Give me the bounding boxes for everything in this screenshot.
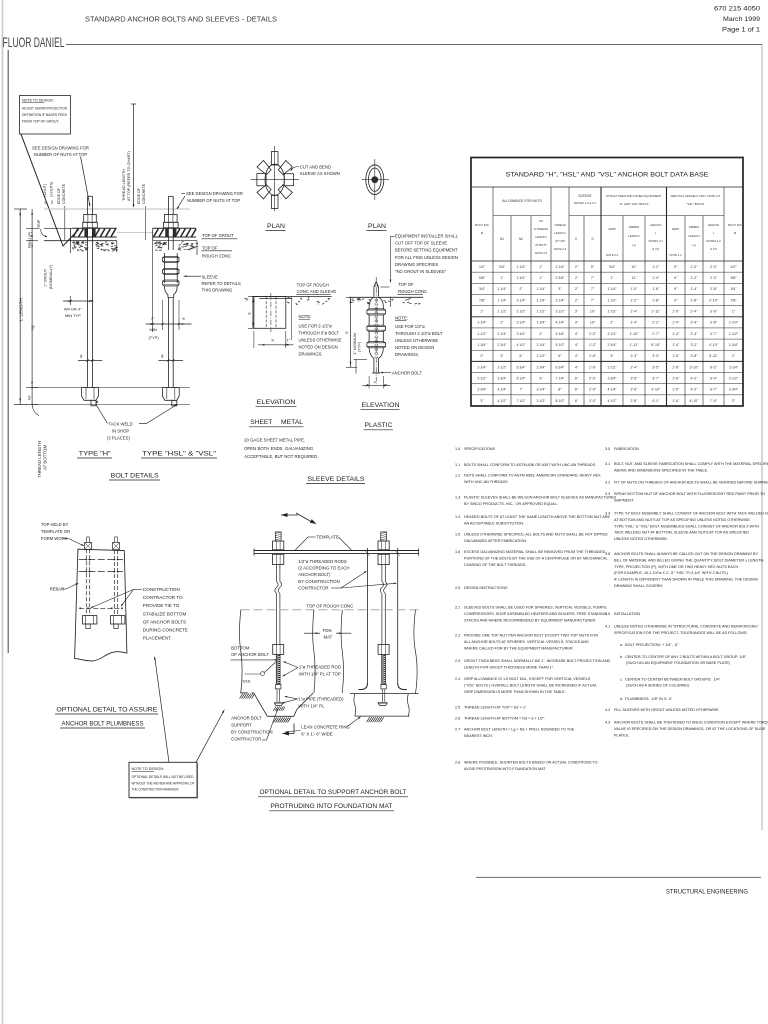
- svg-text:1 3/4": 1 3/4": [536, 321, 546, 325]
- svg-text:1.2: 1.2: [455, 474, 460, 478]
- svg-text:1'-6": 1'-6": [672, 399, 680, 403]
- svg-text:DEFINITION IF BASES FEED: DEFINITION IF BASES FEED: [22, 113, 68, 117]
- svg-text:5": 5": [591, 265, 595, 269]
- svg-text:3'-3": 3'-3": [652, 354, 660, 358]
- svg-text:PLACEMENT.: PLACEMENT.: [143, 636, 172, 641]
- svg-text:3 3/4": 3 3/4": [607, 376, 617, 380]
- svg-text:3": 3": [539, 376, 543, 380]
- top of rough conc label plastic: [381, 286, 390, 288]
- svg-text:ROUGH CONC: ROUGH CONC: [202, 253, 231, 258]
- svg-text:STACKS AND WHERE RECOMMENDED B: STACKS AND WHERE RECOMMENDED BY EQUIPMEN…: [464, 618, 596, 622]
- svg-text:UNLESS OTHERWISE SPECIFIED, AL: UNLESS OTHERWISE SPECIFIED, ALL BOLTS AN…: [464, 533, 608, 537]
- svg-text:GROUT THICKNESS SHALL NORMALLY: GROUT THICKNESS SHALL NORMALLY BE 1". IN…: [464, 659, 611, 663]
- svg-text:2": 2": [575, 276, 579, 280]
- leader to right detail: [196, 711, 224, 763]
- svg-text:3": 3": [575, 310, 579, 314]
- threaded rods with hooks: [367, 548, 369, 683]
- svg-text:TYPE "HSL" & "VSL": TYPE "HSL" & "VSL": [142, 451, 216, 458]
- svg-text:LENGTH: LENGTH: [554, 231, 565, 235]
- bolt B bottom clamp: [111, 616, 125, 624]
- svg-text:Lg: Lg: [30, 326, 35, 330]
- svg-text:ANCHOR BOLT: ANCHOR BOLT: [392, 370, 422, 375]
- svg-text:SLEEVE: SLEEVE: [202, 275, 219, 280]
- template lines in pier: [79, 559, 123, 561]
- svg-text:2": 2": [732, 354, 736, 358]
- svg-text:2 1/4": 2 1/4": [516, 298, 526, 302]
- svg-text:GRIP: GRIP: [37, 219, 41, 229]
- svg-text:1.1: 1.1: [455, 463, 460, 467]
- svg-text:1 1/4": 1 1/4": [536, 298, 546, 302]
- svg-text:3 1/2": 3 1/2": [555, 310, 565, 314]
- svg-text:N1: N1: [44, 200, 48, 204]
- svg-text:2'-3": 2'-3": [631, 354, 639, 358]
- svg-text:1 1/2": 1 1/2": [607, 298, 617, 302]
- svg-text:1": 1": [539, 265, 543, 269]
- svg-text:NOTES 2.2: NOTES 2.2: [706, 239, 721, 243]
- svg-text:WITH 1/4" PL AT TOP: WITH 1/4" PL AT TOP: [299, 672, 341, 677]
- svg-text:1'-0": 1'-0": [672, 310, 680, 314]
- svg-text:VERTICAL VESSELS ONLY NOTE 2.6: VERTICAL VESSELS ONLY NOTE 2.6: [670, 194, 720, 198]
- svg-text:N3: N3: [539, 219, 543, 223]
- bolt 2 shaft lower: [167, 298, 169, 388]
- svg-text:STRUCTURES AND OTHER EQUIPMENT: STRUCTURES AND OTHER EQUIPMENT: [606, 194, 662, 198]
- hatch under right bolt: [367, 717, 370, 722]
- svg-text:1/2": 1/2": [479, 265, 486, 269]
- svg-text:AT BOTTOM: AT BOTTOM: [43, 445, 48, 470]
- svg-text:1-1/2": 1-1/2": [729, 332, 739, 336]
- svg-text:1.5: 1.5: [455, 533, 460, 537]
- sheet metal K dim: [258, 344, 294, 346]
- right mat bottom and lean concrete ring: [350, 693, 419, 695]
- svg-text:'L' LENGTH: 'L' LENGTH: [19, 298, 24, 322]
- svg-text:NUMBER OF NUTS AT TOP: NUMBER OF NUTS AT TOP: [187, 198, 240, 203]
- svg-text:1-3/4": 1-3/4": [729, 343, 739, 347]
- svg-text:5/8": 5/8": [479, 276, 486, 280]
- svg-text:3 1/4": 3 1/4": [555, 298, 565, 302]
- svg-text:5'-11": 5'-11": [709, 354, 718, 358]
- svg-text:ø: ø: [481, 231, 483, 235]
- svg-text:ANCHOR BOLT: ANCHOR BOLT: [231, 716, 262, 721]
- svg-text:2": 2": [480, 354, 484, 358]
- svg-text:DESIGN INSTRUCTIONS: DESIGN INSTRUCTIONS: [464, 586, 508, 590]
- svg-text:3'-7": 3'-7": [652, 376, 660, 380]
- plastic elevation: [349, 296, 423, 298]
- svg-text:10": 10": [590, 310, 596, 314]
- svg-text:7": 7": [591, 287, 595, 291]
- anchor bolt top stud and nuts at x=170.8: [167, 196, 169, 214]
- svg-text:K: K: [183, 316, 186, 321]
- svg-text:ANCHOR BOLT LENGTH = Lg + N3 +: ANCHOR BOLT LENGTH = Lg + N3 + PROJ. ROU…: [464, 728, 575, 732]
- svg-text:W4 OR 4": W4 OR 4": [64, 307, 82, 312]
- svg-text:CHASING OF THE BOLT THREADS.: CHASING OF THE BOLT THREADS.: [464, 563, 526, 567]
- svg-text:OF ANCHOR BOLT: OF ANCHOR BOLT: [231, 652, 269, 657]
- svg-text:d: d: [161, 354, 164, 359]
- svg-text:(3 PLACES): (3 PLACES): [107, 436, 130, 441]
- svg-text:2 3/4": 2 3/4": [536, 365, 546, 369]
- svg-text:ELEVATION: ELEVATION: [362, 402, 400, 409]
- svg-text:1.4: 1.4: [455, 515, 460, 519]
- svg-text:FIT OF NUTS ON THREADS OF ANCH: FIT OF NUTS ON THREADS OF ANCHOR BOLTS S…: [614, 481, 768, 485]
- svg-text:3/4": 3/4": [479, 287, 486, 291]
- bolt washer wedges in grout band 2: [165, 229, 168, 237]
- svg-text:1'-2": 1'-2": [691, 276, 699, 280]
- svg-text:"NO GROUT IN SLEEVES": "NO GROUT IN SLEEVES": [395, 269, 447, 274]
- svg-text:BILL OF MATERIAL AND BILLED GI: BILL OF MATERIAL AND BILLED GIVING THE Q…: [614, 558, 764, 562]
- svg-text:2'-4": 2'-4": [691, 332, 699, 336]
- svg-text:GRIP: GRIP: [672, 227, 679, 231]
- svg-text:"VSL" BOLTS: "VSL" BOLTS: [686, 202, 704, 206]
- svg-text:(TYP): (TYP): [357, 341, 362, 352]
- svg-text:2'-4": 2'-4": [631, 365, 639, 369]
- svg-text:OF ANCHOR BOLTS: OF ANCHOR BOLTS: [143, 619, 186, 624]
- svg-text:FOR ALL FINS UNLESS DESIGN: FOR ALL FINS UNLESS DESIGN: [395, 255, 458, 260]
- sheet metal elevation: [252, 296, 332, 298]
- svg-text:1'-0": 1'-0": [691, 265, 699, 269]
- svg-text:LENGTH: LENGTH: [650, 223, 661, 227]
- svg-text:7": 7": [591, 298, 595, 302]
- svg-text:7": 7": [519, 388, 523, 392]
- leader to left detail: [155, 658, 169, 763]
- svg-text:7 1/2": 7 1/2": [516, 399, 526, 403]
- svg-text:1'-6": 1'-6": [589, 354, 597, 358]
- svg-text:4 1/2": 4 1/2": [607, 399, 617, 403]
- svg-text:1'-6": 1'-6": [672, 354, 680, 358]
- section arrow bottom: [283, 732, 290, 736]
- svg-text:AT TOP (REFER TO CHART): AT TOP (REFER TO CHART): [127, 150, 131, 201]
- svg-text:2-1/2": 2-1/2": [729, 376, 739, 380]
- plastic K dim: [362, 384, 390, 386]
- svg-text:FLUOR DANIEL: FLUOR DANIEL: [3, 34, 65, 50]
- svg-text:1/2"ø THREADED RODS: 1/2"ø THREADED RODS: [298, 559, 347, 564]
- svg-text:EXCESS GALVANIZING MATERIAL SH: EXCESS GALVANIZING MATERIAL SHALL BE REM…: [464, 550, 606, 554]
- svg-text:4'-2": 4'-2": [691, 388, 699, 392]
- svg-text:3/16: 3/16: [242, 679, 251, 684]
- svg-text:NOTE 2.3: NOTE 2.3: [554, 247, 567, 251]
- data table: STANDARD H HSL VSL ANCHOR BOLT DATA BASE: [471, 158, 743, 407]
- svg-text:2'-0": 2'-0": [589, 376, 597, 380]
- svg-text:1.0: 1.0: [455, 447, 460, 451]
- svg-text:FORM WORK: FORM WORK: [41, 536, 68, 541]
- svg-text:VALUE IS SPECIFIED ON THE DESI: VALUE IS SPECIFIED ON THE DESIGN DRAWING…: [614, 727, 766, 731]
- svg-text:2": 2": [500, 321, 504, 325]
- svg-text:ANCHOR BOLTS SHALL BE TIGHTENE: ANCHOR BOLTS SHALL BE TIGHTENED TO SNUG …: [614, 721, 768, 725]
- svg-text:670 215 4050: 670 215 4050: [714, 6, 760, 13]
- pit outline left: [240, 692, 254, 694]
- svg-text:1'-6": 1'-6": [672, 376, 680, 380]
- svg-text:2 3/4": 2 3/4": [497, 343, 507, 347]
- page left scan edge: [2, 0, 4, 1024]
- svg-text:2'-0": 2'-0": [589, 399, 597, 403]
- svg-text:HEADED BOLTS OF AT LEAST THE S: HEADED BOLTS OF AT LEAST THE SAME LENGTH…: [464, 515, 610, 519]
- svg-text:2'-6": 2'-6": [631, 388, 639, 392]
- svg-text:& 3.5: & 3.5: [652, 247, 659, 251]
- svg-text:2 1/4": 2 1/4": [536, 343, 546, 347]
- svg-text:N2: N2: [519, 237, 523, 241]
- svg-text:2'-2": 2'-2": [652, 321, 660, 325]
- svg-text:3": 3": [575, 321, 579, 325]
- svg-text:2.3: 2.3: [455, 659, 460, 663]
- svg-text:6": 6": [575, 399, 579, 403]
- svg-text:THIS DRAWING: THIS DRAWING: [202, 288, 233, 293]
- svg-text:March 1999: March 1999: [723, 16, 760, 23]
- svg-text:REBAR: REBAR: [50, 587, 64, 592]
- svg-text:LENGTH FOR GROUT THICKNESS MOR: LENGTH FOR GROUT THICKNESS MORE THAN 1".: [464, 665, 554, 669]
- svg-text:THREAD LENGTH: THREAD LENGTH: [122, 169, 126, 201]
- right border line: [761, 44, 763, 830]
- svg-text:GRIP ALLOWANCE IS 1.5 BOLT DIA: GRIP ALLOWANCE IS 1.5 BOLT DIA., EXCEPT …: [464, 677, 591, 681]
- svg-text:4.2: 4.2: [605, 708, 610, 712]
- svg-text:1'-4": 1'-4": [672, 321, 680, 325]
- svg-text:4.1: 4.1: [605, 625, 610, 629]
- svg-text:USE FOR 1/2"ø: USE FOR 1/2"ø: [395, 324, 425, 329]
- hatch below pit bottom: [274, 718, 277, 723]
- bolt bottom flanges: [274, 702, 283, 704]
- svg-text:ANCHOR BOLTS SHALL ALWAYS BE C: ANCHOR BOLTS SHALL ALWAYS BE CALLED OUT …: [614, 552, 759, 556]
- svg-text:4'-1": 4'-1": [652, 399, 660, 403]
- svg-text:1'-4": 1'-4": [691, 287, 699, 291]
- optional detail pier outline: [75, 549, 127, 661]
- svg-text:4": 4": [575, 343, 579, 347]
- svg-text:TOP OF ROUGH: TOP OF ROUGH: [297, 283, 329, 288]
- svg-text:2 1/4": 2 1/4": [555, 265, 565, 269]
- svg-text:2.6: 2.6: [455, 717, 460, 721]
- svg-text:9": 9": [674, 287, 678, 291]
- weld callout 3/16: [245, 673, 261, 675]
- svg-text:(FOR EXAMPLE, 10-1 1/4"ø X 2'-: (FOR EXAMPLE, 10-1 1/4"ø X 2'- 5" "HSL" …: [614, 571, 729, 575]
- svg-text:3/4": 3/4": [499, 265, 506, 269]
- svg-text:4 1/4": 4 1/4": [555, 321, 565, 325]
- svg-text:TYPE "H" BOLT ASSEMBLY SHALL C: TYPE "H" BOLT ASSEMBLY SHALL CONSIST OF …: [614, 512, 768, 516]
- leader from note box to grout: [21, 134, 79, 246]
- tie line: [79, 607, 122, 609]
- svg-text:EMBED: EMBED: [689, 225, 699, 229]
- svg-text:PLATES.: PLATES.: [614, 733, 629, 737]
- svg-text:1 3/4": 1 3/4": [516, 276, 526, 280]
- svg-text:1'-11": 1'-11": [651, 310, 660, 314]
- svg-text:3": 3": [610, 354, 614, 358]
- svg-text:BEFORE SETTING EQUIPMENT: BEFORE SETTING EQUIPMENT: [395, 248, 458, 253]
- svg-text:DRAWINGS.: DRAWINGS.: [395, 352, 419, 357]
- sheet metal S dim: [252, 297, 254, 329]
- svg-text:10": 10": [631, 265, 637, 269]
- svg-text:4 3/4": 4 3/4": [555, 332, 565, 336]
- svg-text:PROTRUDING INTO FOUNDATION MAT: PROTRUDING INTO FOUNDATION MAT: [270, 803, 392, 810]
- svg-text:"H" AND "HSL" BOLTS: "H" AND "HSL" BOLTS: [619, 202, 649, 206]
- svg-text:OPTIONAL DETAILS WILL NOT BE U: OPTIONAL DETAILS WILL NOT BE USED: [132, 775, 194, 779]
- svg-text:2 1/4": 2 1/4": [497, 332, 507, 336]
- svg-text:4.0: 4.0: [605, 612, 610, 616]
- faint top-of-bolt construction line: [44, 208, 190, 210]
- svg-text:6 1/4": 6 1/4": [516, 376, 526, 380]
- svg-text:GRIP DIMENSION IS MORE THAN SH: GRIP DIMENSION IS MORE THAN SHOWN IN THE…: [464, 690, 566, 694]
- bolt A bottom clamp: [83, 616, 97, 624]
- svg-text:NEAREST INCH.: NEAREST INCH.: [464, 734, 493, 738]
- svg-text:ELEVATION: ELEVATION: [257, 399, 296, 406]
- bolt B top nut: [113, 542, 120, 549]
- svg-text:1'-4": 1'-4": [672, 332, 680, 336]
- svg-text:CONC AND SLEEVE: CONC AND SLEEVE: [297, 289, 337, 294]
- svg-text:4'-2": 4'-2": [691, 376, 699, 380]
- svg-text:CUT AND BEND: CUT AND BEND: [300, 165, 331, 170]
- svg-text:WITH 1/4" PL: WITH 1/4" PL: [298, 703, 325, 708]
- svg-text:(SUCH AS A SERIES OF COLUMNS): (SUCH AS A SERIES OF COLUMNS): [626, 684, 690, 688]
- bolt B in pier: [113, 550, 115, 616]
- bottom nut at x=170.8: [162, 387, 179, 389]
- svg-text:EQUIPMENT INSTALLER SHALL: EQUIPMENT INSTALLER SHALL: [395, 233, 459, 238]
- svg-text:2'-0": 2'-0": [589, 388, 597, 392]
- svg-text:EDGE OF: EDGE OF: [57, 187, 61, 204]
- grout hatch band x 72.3-116.8: [72, 227, 117, 229]
- svg-text:NUTS SHALL CONFORM TO ASTM A56: NUTS SHALL CONFORM TO ASTM A563, AMERICA…: [464, 474, 601, 478]
- svg-text:6" X 1'- 6" WIDE: 6" X 1'- 6" WIDE: [301, 731, 332, 736]
- svg-text:4'-7": 4'-7": [710, 332, 718, 336]
- svg-text:DRAWING SHALL GOVERN.: DRAWING SHALL GOVERN.: [614, 584, 663, 588]
- svg-text:Lg: Lg: [632, 243, 636, 247]
- svg-text:REFER TO DETAILS: REFER TO DETAILS: [202, 281, 242, 286]
- support bolt shaft at x=278.2: [276, 565, 278, 582]
- svg-text:7 1/4": 7 1/4": [555, 376, 565, 380]
- svg-text:S: S: [591, 237, 593, 241]
- svg-text:NOTE TO DESIGN:: NOTE TO DESIGN:: [22, 99, 54, 103]
- svg-text:2 1/2": 2 1/2": [536, 354, 546, 358]
- svg-text:1'-4": 1'-4": [652, 276, 660, 280]
- svg-text:2'-3": 2'-3": [710, 276, 718, 280]
- svg-text:6'-7": 6'-7": [710, 388, 718, 392]
- svg-text:N1: N1: [500, 237, 504, 241]
- svg-text:3.1: 3.1: [605, 462, 610, 466]
- svg-text:BOLTS SHALL CONFORM TO ASTM A3: BOLTS SHALL CONFORM TO ASTM A36 OR A307 …: [464, 463, 596, 467]
- svg-text:THREAD: THREAD: [554, 223, 566, 227]
- svg-text:WITH UNC-8N THREADS.: WITH UNC-8N THREADS.: [464, 480, 509, 484]
- svg-text:AN ACCEPTABLE SUBSTITUTION.: AN ACCEPTABLE SUBSTITUTION.: [464, 521, 524, 525]
- svg-text:5/8": 5/8": [730, 276, 737, 280]
- svg-text:2'-8": 2'-8": [710, 287, 718, 291]
- svg-text:CONTRACTOR: CONTRACTOR: [231, 737, 261, 742]
- mat break lines: [240, 610, 243, 693]
- svg-text:TOP OF: TOP OF: [398, 282, 414, 287]
- svg-text:3 3/4": 3 3/4": [516, 332, 526, 336]
- svg-text:BY SINCO PRODUCTS, INC., OR AP: BY SINCO PRODUCTS, INC., OR APPROVED EQU…: [464, 502, 558, 506]
- svg-text:1"ø PIPE (THREADED): 1"ø PIPE (THREADED): [298, 696, 344, 701]
- svg-text:AT TOP: AT TOP: [555, 239, 565, 243]
- svg-text:1'-6": 1'-6": [589, 365, 597, 369]
- svg-text:1/2": 1/2": [730, 265, 737, 269]
- dim N3: [31, 388, 33, 405]
- svg-text:UNLESS NOTED OTHERWISE IN "STR: UNLESS NOTED OTHERWISE IN "STRUCTURAL CO…: [614, 625, 759, 629]
- svg-text:Page 1 of 1: Page 1 of 1: [722, 27, 760, 34]
- svg-text:6'-10": 6'-10": [651, 343, 661, 347]
- svg-text:NOTED ON DESIGN: NOTED ON DESIGN: [299, 344, 338, 349]
- svg-text:3'-10": 3'-10": [690, 365, 700, 369]
- note to design box bottom: [129, 762, 197, 797]
- svg-text:1'-11": 1'-11": [630, 343, 639, 347]
- svg-text:LENGTH: LENGTH: [535, 235, 546, 239]
- svg-text:9": 9": [674, 265, 678, 269]
- svg-text:1 1/4": 1 1/4": [607, 287, 617, 291]
- svg-text:a. BOLT PROJECTION: + 1/4", -: a. BOLT PROJECTION: + 1/4", -0": [620, 643, 679, 647]
- support bolt top at x=383.6: [381, 532, 387, 541]
- svg-text:1 1/2": 1 1/2": [536, 310, 546, 314]
- svg-text:PLASTIC SLEEVES SHALL BE WILSO: PLASTIC SLEEVES SHALL BE WILSON ANCHOR B…: [464, 496, 617, 500]
- svg-text:3 1/2": 3 1/2": [497, 365, 507, 369]
- svg-text:CUT OFF TOP OF SLEEVE: CUT OFF TOP OF SLEEVE: [395, 240, 447, 245]
- svg-text:TACK WELDED NUT AT BOTTOM, SLE: TACK WELDED NUT AT BOTTOM, SLEEVE AND NU…: [614, 531, 749, 535]
- svg-text:ABOVE AND DIMENSIONS SPECIFIED: ABOVE AND DIMENSIONS SPECIFIED IN THE TA…: [614, 468, 708, 472]
- svg-text:1": 1": [500, 276, 504, 280]
- svg-text:1'-0": 1'-0": [631, 287, 639, 291]
- svg-text:NOTE 2.6: NOTE 2.6: [535, 251, 548, 255]
- svg-text:TOP OF: TOP OF: [202, 245, 218, 250]
- svg-text:EDGE OF: EDGE OF: [137, 187, 141, 204]
- svg-text:PROVIDE TIE TO: PROVIDE TIE TO: [143, 603, 180, 608]
- svg-text:NOTED ON DESIGN: NOTED ON DESIGN: [395, 345, 434, 350]
- svg-text:9": 9": [674, 276, 678, 280]
- svg-text:THROUGH 2 1/4"ø BOLT: THROUGH 2 1/4"ø BOLT: [395, 331, 443, 336]
- svg-text:N2: N2: [50, 200, 54, 204]
- svg-text:BOLT DIA: BOLT DIA: [728, 223, 741, 227]
- svg-text:(2-NUTS): (2-NUTS): [50, 182, 54, 197]
- svg-text:OPTIONAL DETAIL TO SUPPORT ANC: OPTIONAL DETAIL TO SUPPORT ANCHOR BOLT: [260, 789, 407, 796]
- svg-text:2.1: 2.1: [455, 606, 460, 610]
- svg-text:2 1/4": 2 1/4": [607, 332, 617, 336]
- svg-text:CONTRACTOR TO: CONTRACTOR TO: [143, 595, 183, 600]
- svg-text:NOTES 2.7: NOTES 2.7: [649, 239, 664, 243]
- svg-text:2": 2": [539, 332, 543, 336]
- svg-text:PROVIDE ONE TOP NUT PER ANCHOR: PROVIDE ONE TOP NUT PER ANCHOR BOLT EXCE…: [464, 634, 598, 638]
- support bolt top at x=278.2: [275, 532, 281, 541]
- svg-text:COMPRESSORS, SHOP ASSEMBLED HE: COMPRESSORS, SHOP ASSEMBLED HEATERS AND …: [464, 612, 607, 616]
- svg-text:STRUCTURAL ENGINEERING: STRUCTURAL ENGINEERING: [666, 889, 748, 896]
- svg-text:UNLESS OTHERWISE: UNLESS OTHERWISE: [299, 337, 342, 342]
- svg-text:2.5: 2.5: [455, 706, 460, 710]
- svg-text:1'-6": 1'-6": [652, 287, 660, 291]
- svg-text:1-1/4": 1-1/4": [729, 321, 739, 325]
- svg-text:GRIP: GRIP: [608, 227, 615, 231]
- svg-text:SPECIFICATIONS: SPECIFICATIONS: [464, 447, 495, 451]
- svg-text:ANCHOR BOLT PLUMBNESS: ANCHOR BOLT PLUMBNESS: [62, 721, 144, 728]
- svg-text:b. CENTER-TO-CENTER OF ANY 2: b. CENTER-TO-CENTER OF ANY 2 BOLTS WITHI…: [620, 655, 747, 659]
- svg-text:1 1/4": 1 1/4": [536, 287, 546, 291]
- svg-text:NOTE 2.4: NOTE 2.4: [606, 253, 618, 257]
- svg-text:TYPE "H": TYPE "H": [79, 451, 111, 458]
- svg-text:K: K: [374, 380, 377, 385]
- svg-text:2.8: 2.8: [455, 761, 460, 765]
- svg-text:METAL: METAL: [281, 419, 303, 426]
- svg-text:2.7: 2.7: [455, 728, 460, 732]
- svg-text:1"ø THREADED ROD: 1"ø THREADED ROD: [299, 665, 341, 670]
- plastic S dim: [350, 297, 352, 367]
- svg-text:DURING CONCRETE: DURING CONCRETE: [143, 628, 188, 633]
- svg-text:MIN TYP: MIN TYP: [65, 313, 81, 318]
- svg-text:LENGTH: LENGTH: [708, 223, 719, 227]
- svg-text:5 1/2": 5 1/2": [555, 343, 565, 347]
- svg-text:4 1/2": 4 1/2": [516, 343, 526, 347]
- svg-text:(TYP): (TYP): [149, 335, 160, 340]
- svg-text:ALL ANCHOR BOLTS AT SPHERES, V: ALL ANCHOR BOLTS AT SPHERES, VERTICAL VE…: [464, 640, 589, 644]
- svg-text:c. CENTER TO CENTER BETWEEN B: c. CENTER TO CENTER BETWEEN BOLT GROUPS:…: [620, 678, 721, 682]
- svg-text:TEMPLATE: TEMPLATE: [317, 535, 339, 540]
- svg-text:STANDARD ANCHOR BOLTS AND SLEE: STANDARD ANCHOR BOLTS AND SLEEVES - DETA…: [85, 15, 277, 24]
- svg-text:1-1/4": 1-1/4": [477, 321, 487, 325]
- svg-text:K: K: [272, 338, 275, 343]
- svg-text:1-3/4": 1-3/4": [477, 343, 487, 347]
- svg-text:5": 5": [519, 354, 523, 358]
- svg-text:(NOMINALLY): (NOMINALLY): [49, 264, 53, 289]
- svg-text:2'-8": 2'-8": [631, 399, 639, 403]
- svg-text:MAT: MAT: [324, 634, 333, 639]
- svg-text:FROM TOP OF GROUT.: FROM TOP OF GROUT.: [22, 120, 59, 124]
- svg-text:TYPE, PROJECTION (P), WITH ONE: TYPE, PROJECTION (P), WITH ONE OR TWO HE…: [614, 565, 738, 569]
